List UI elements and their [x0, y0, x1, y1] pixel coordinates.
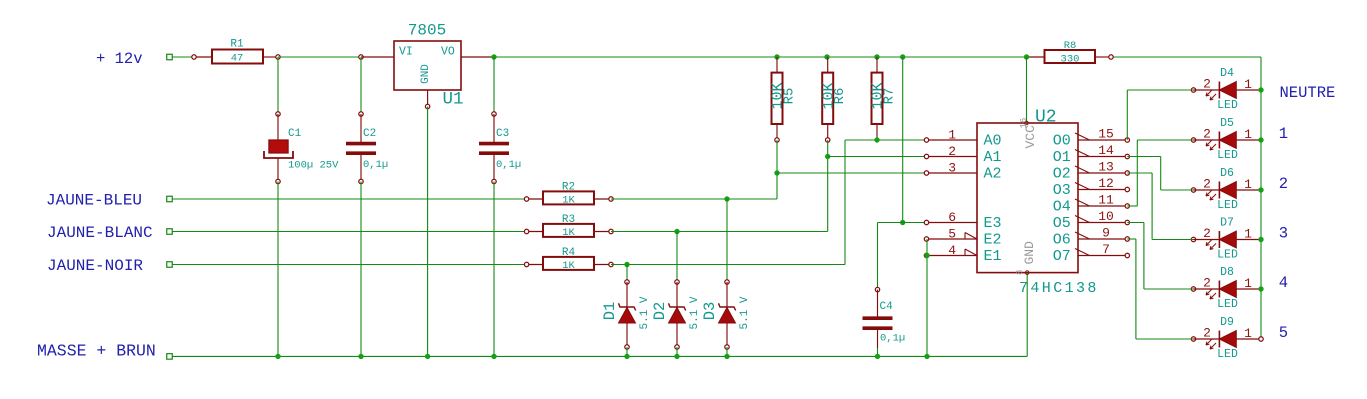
svg-text:MASSE + BRUN: MASSE + BRUN: [37, 342, 156, 361]
svg-text:7805: 7805: [408, 22, 446, 40]
svg-text:D5: D5: [1220, 117, 1234, 130]
svg-text:LED: LED: [1217, 99, 1238, 112]
svg-text:O1: O1: [1053, 149, 1071, 166]
svg-text:1: 1: [1244, 326, 1252, 341]
svg-text:11: 11: [1098, 193, 1114, 208]
svg-text:A1: A1: [984, 149, 1002, 166]
svg-text:VI: VI: [399, 46, 413, 59]
svg-text:6: 6: [948, 210, 956, 225]
svg-text:A2: A2: [984, 166, 1002, 183]
svg-text:16: 16: [1019, 118, 1029, 129]
svg-text:D6: D6: [1220, 167, 1234, 180]
svg-text:2: 2: [1203, 77, 1211, 92]
svg-text:0,1µ: 0,1µ: [496, 159, 521, 171]
svg-text:5: 5: [948, 227, 956, 242]
svg-text:1K: 1K: [562, 260, 575, 272]
svg-text:O2: O2: [1053, 166, 1071, 183]
svg-text:47: 47: [231, 53, 244, 65]
svg-text:U2: U2: [1035, 108, 1057, 128]
svg-text:LED: LED: [1217, 298, 1238, 311]
svg-text:R4: R4: [562, 247, 576, 259]
svg-text:C2: C2: [363, 128, 376, 140]
svg-text:1: 1: [1244, 177, 1252, 192]
svg-text:R3: R3: [562, 214, 575, 226]
svg-text:R1: R1: [230, 39, 244, 51]
svg-text:E3: E3: [984, 215, 1002, 232]
svg-text:LED: LED: [1217, 249, 1238, 262]
svg-text:3: 3: [1279, 225, 1288, 243]
svg-text:74HC138: 74HC138: [1019, 280, 1099, 297]
svg-text:NEUTRE: NEUTRE: [1280, 84, 1336, 102]
svg-text:12: 12: [1098, 176, 1114, 191]
svg-text:1: 1: [1244, 227, 1252, 242]
svg-text:JAUNE-NOIR: JAUNE-NOIR: [47, 257, 143, 275]
svg-text:A0: A0: [984, 133, 1002, 150]
svg-text:D4: D4: [1220, 67, 1234, 80]
svg-text:C4: C4: [880, 301, 894, 313]
svg-text:3: 3: [948, 161, 956, 176]
svg-text:2: 2: [1203, 177, 1211, 192]
svg-text:D8: D8: [1220, 266, 1234, 279]
svg-text:O4: O4: [1053, 199, 1071, 216]
svg-text:100µ 25V: 100µ 25V: [288, 160, 339, 172]
svg-text:D7: D7: [1220, 217, 1234, 230]
svg-text:5.1 V: 5.1 V: [739, 296, 751, 329]
svg-text:4: 4: [1279, 274, 1288, 292]
svg-text:1: 1: [1279, 125, 1288, 143]
svg-text:1: 1: [1244, 276, 1252, 291]
svg-text:4: 4: [948, 243, 956, 258]
svg-text:5: 5: [1279, 324, 1288, 342]
svg-text:1K: 1K: [562, 195, 575, 207]
svg-text:0,1µ: 0,1µ: [363, 159, 388, 171]
svg-text:2: 2: [1203, 127, 1211, 142]
svg-text:+ 12v: + 12v: [96, 50, 143, 68]
svg-text:10: 10: [1098, 209, 1114, 224]
svg-text:R5: R5: [782, 88, 798, 105]
svg-text:2: 2: [948, 144, 956, 159]
svg-text:O7: O7: [1053, 248, 1071, 265]
svg-text:JAUNE-BLANC: JAUNE-BLANC: [47, 224, 153, 242]
svg-text:U1: U1: [443, 90, 464, 110]
svg-text:E1: E1: [984, 248, 1002, 265]
svg-text:14: 14: [1098, 143, 1114, 158]
svg-text:JAUNE-BLEU: JAUNE-BLEU: [46, 192, 142, 210]
svg-text:O0: O0: [1053, 133, 1071, 150]
svg-text:1: 1: [1244, 77, 1252, 92]
svg-text:O5: O5: [1053, 215, 1071, 232]
svg-text:C1: C1: [288, 128, 302, 140]
svg-text:GND: GND: [420, 64, 432, 84]
svg-text:R2: R2: [562, 182, 575, 194]
svg-text:R6: R6: [832, 88, 848, 105]
svg-text:15: 15: [1098, 127, 1114, 142]
svg-text:5.1 V: 5.1 V: [639, 296, 651, 329]
svg-text:D3: D3: [701, 302, 719, 321]
svg-text:8: 8: [1015, 270, 1025, 275]
svg-text:R7: R7: [882, 88, 898, 105]
svg-text:GND: GND: [1022, 241, 1037, 265]
svg-text:9: 9: [1102, 226, 1110, 241]
svg-text:LED: LED: [1217, 149, 1238, 162]
svg-text:13: 13: [1098, 160, 1114, 175]
svg-text:1K: 1K: [562, 227, 575, 239]
svg-text:5.1 V: 5.1 V: [689, 296, 701, 329]
svg-text:LED: LED: [1217, 348, 1238, 361]
svg-text:2: 2: [1203, 276, 1211, 291]
svg-text:O6: O6: [1053, 232, 1071, 249]
svg-text:O3: O3: [1053, 182, 1071, 199]
svg-text:1: 1: [948, 128, 956, 143]
svg-text:330: 330: [1061, 54, 1080, 66]
svg-text:2: 2: [1203, 226, 1211, 241]
svg-text:D2: D2: [651, 302, 669, 321]
svg-text:D9: D9: [1220, 316, 1234, 329]
svg-text:2: 2: [1203, 326, 1211, 341]
svg-text:2: 2: [1279, 175, 1288, 193]
svg-text:D1: D1: [601, 302, 619, 321]
svg-text:E2: E2: [984, 232, 1002, 249]
svg-text:1: 1: [1244, 127, 1252, 142]
svg-text:VO: VO: [441, 46, 455, 59]
svg-text:LED: LED: [1217, 199, 1238, 212]
svg-text:C3: C3: [496, 128, 509, 140]
svg-text:0,1µ: 0,1µ: [880, 333, 905, 345]
svg-text:R8: R8: [1064, 40, 1077, 52]
svg-text:7: 7: [1102, 242, 1110, 257]
